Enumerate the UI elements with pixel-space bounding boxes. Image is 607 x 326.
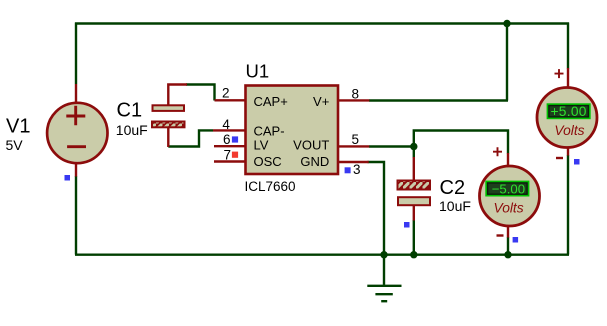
pin 3 state square (blue) [345,167,351,173]
wire stub C2 bottom (red) [413,206,415,221]
wire stub V1 bottom (red) [75,163,77,177]
junction dot ground rail / VM2 [504,251,511,258]
svg-text:C2: C2 [440,177,466,199]
svg-text:U1: U1 [246,61,270,82]
wire stub V1 top (red) [75,84,77,103]
wire bottom ground rail horizontal [75,253,569,255]
indicator square C2 [404,222,410,228]
wire VOUT node down to C2 [413,146,415,158]
indicator square VM2 [513,237,519,243]
wire C1 bottom plate to pin 4 [168,130,213,146]
indicator square V1 [65,175,71,181]
junction dot VOUT node [410,143,417,150]
voltmeter VM2 display [486,181,528,195]
svg-text:V1: V1 [6,116,30,138]
pin 3 stub [338,161,369,163]
svg-text:CAP+: CAP+ [254,94,288,109]
svg-text:4: 4 [222,117,230,132]
voltmeter VM2 plus mark [493,147,502,156]
wire V+ branch vertical into pin 8 [506,23,508,101]
wire stub VM2 bottom (red) [507,227,509,238]
wire pin 8 horizontal [369,99,508,101]
svg-text:3: 3 [353,162,361,177]
svg-text:ICL7660: ICL7660 [245,179,296,194]
wire stub VM1 bottom (red) [567,147,569,156]
pin 8 stub [338,99,369,101]
IC U1 body [246,86,339,175]
capacitor C1 bottom plate (hatched) [152,122,185,128]
wire stub C1 bottom (red) [167,128,169,148]
voltmeter VM2 body [480,166,540,226]
svg-text:CAP-: CAP- [254,123,285,138]
svg-text:6: 6 [223,132,231,147]
svg-text:−5.00: −5.00 [492,182,525,197]
svg-text:7: 7 [224,147,232,162]
svg-text:OSC: OSC [254,154,282,169]
wire stub VM2 top (red) [507,153,509,166]
voltmeter VM1 minus mark [556,157,563,159]
wire V1 bottom vertical [75,176,77,255]
voltmeter VM2 minus mark [497,234,504,236]
indicator square VM1 [574,159,580,165]
pin 2 stub [215,99,246,101]
wire stub C1 top (red) [168,85,187,106]
wire V1 top vertical [75,23,77,85]
wire pin 5 VOUT horizontal [369,145,414,147]
svg-text:Volts: Volts [554,123,584,138]
svg-text:GND: GND [300,154,329,169]
svg-text:5V: 5V [6,137,24,153]
voltmeter VM1 plus mark [555,69,564,78]
wire C2 bottom vertical [413,220,415,255]
svg-text:VOUT: VOUT [293,137,329,152]
pin 4 stub [213,129,245,131]
pin 7 state square (red) [232,152,238,158]
capacitor C2 top plate (hatched) [398,181,431,190]
battery V1 plus symbol [66,106,85,126]
wire C1 top plate to pin 2 [186,85,215,101]
wire voltmeter VM1 bottom vertical [567,155,569,255]
svg-text:V+: V+ [313,94,329,109]
pin 6 stub [214,145,245,147]
svg-text:5: 5 [352,132,360,147]
wire top horizontal (V+ rail) [75,22,569,24]
junction dot ground rail / C2 [410,251,417,258]
wire VOUT node up-over to voltmeter VM2 [414,131,508,154]
pin 5 stub [338,145,369,147]
svg-text:2: 2 [222,85,230,100]
svg-text:+5.00: +5.00 [551,104,587,119]
wire stub C2 top (red) [413,157,415,181]
battery V1 minus symbol [67,145,86,148]
pin 7 stub [214,160,245,162]
voltmeter VM1 display [547,104,590,118]
pin 6 state square (blue) [232,136,238,142]
wire right vertical to voltmeter VM1 top [567,23,569,69]
svg-text:C1: C1 [117,100,143,122]
svg-text:8: 8 [352,87,360,102]
svg-text:LV: LV [254,137,269,152]
junction dot V+ rail / VM1 branch [503,20,510,27]
svg-text:Volts: Volts [494,201,524,216]
svg-text:10uF: 10uF [116,122,148,138]
wire pin 3 GND to ground rail [368,162,385,255]
wire stub VM1 top (red) [567,68,569,89]
ground symbol [367,255,401,302]
junction dot ground rail / pin3 [380,251,387,258]
wire voltmeter VM2 bottom vertical [507,237,509,255]
capacitor C2 bottom plate [398,197,430,205]
voltmeter VM1 body [537,88,597,148]
battery V1 body [47,103,107,163]
capacitor C1 top plate [153,105,185,111]
svg-text:10uF: 10uF [439,198,471,214]
